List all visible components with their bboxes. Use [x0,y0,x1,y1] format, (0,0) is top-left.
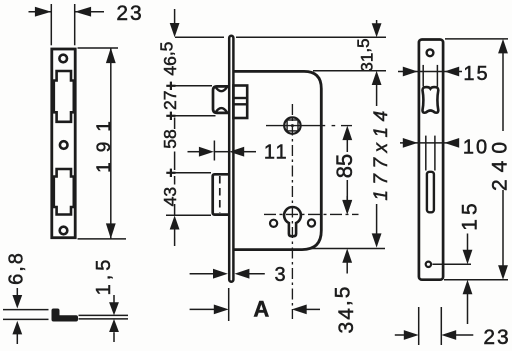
dimension 23 extension lines [50,4,52,45]
svg-text:27: 27 [160,91,180,110]
dimension A [190,308,215,310]
chain dimension line [174,9,176,24]
deadbolt dashed line [219,176,221,213]
svg-text:43: 43 [160,187,180,206]
svg-text:3: 3 [274,264,285,286]
chain bottom arrow [170,216,180,230]
dimension 191 top extension [78,47,119,49]
deadbolt slot [427,172,434,213]
svg-text:11: 11 [264,142,289,164]
svg-text:10: 10 [463,136,489,158]
vertical center axis dash-dot [291,104,293,319]
svg-text:15: 15 [459,199,482,230]
arrow left tip at right ext [75,7,91,17]
screw hole leader line [433,263,472,265]
svg-text:34,5: 34,5 [331,285,358,334]
deadbolt cutout [54,169,74,215]
latch bolt head [213,86,228,113]
dimension 177x14 [372,71,382,85]
screw hole bottom [60,227,68,235]
svg-text:58: 58 [160,129,180,148]
svg-text:15: 15 [463,63,489,85]
svg-text:240: 240 [489,135,512,191]
right bottom screw hole [426,262,431,267]
svg-text:46,5: 46,5 [157,42,181,76]
svg-text:177x14: 177x14 [371,105,392,200]
svg-text:6,8: 6,8 [6,251,28,285]
dimension 240 bottom extension [444,279,508,281]
dimension 11 line [188,151,201,153]
screw hole left of cylinder [270,220,277,227]
svg-text:31,5: 31,5 [354,38,376,71]
right faceplate outline [419,40,443,280]
svg-text:A: A [253,297,269,322]
dimension 11 vertical extension [213,141,215,161]
slot guide lines [425,136,427,171]
dimension 6,8 arrows [16,288,18,296]
dimension 23 bottom extensions [418,307,420,345]
dimension 34,5 [346,196,348,200]
chain line segments [174,118,176,130]
spindle dot [291,124,294,127]
spindle square [287,120,298,131]
plus tick [166,85,175,87]
svg-text:23: 23 [116,2,143,25]
svg-text:23: 23 [483,326,510,349]
deadbolt top extension [167,172,211,174]
section lines right pair [79,314,129,316]
dimension 23 bottom line [395,334,405,336]
dimension 23 dimension line right [75,11,104,13]
latch body line 1 [233,97,247,99]
section lines left pair [3,309,49,311]
euro cylinder keyhole [284,207,301,236]
spindle follower [284,117,300,133]
dimension 31,5 [376,20,378,25]
dimension 191 bottom extension [78,238,127,240]
deadbolt [213,174,230,214]
plus tick [166,115,175,117]
latch top extension [168,85,212,87]
screw hole top [59,55,67,63]
plus tick [166,172,175,174]
dimension 240 line [498,39,508,54]
svg-text:1,5: 1,5 [93,256,115,296]
latch body behind plate [233,86,247,119]
latch body line 2 [233,103,247,105]
faceplate plate outline [52,49,75,238]
dimension 3 [190,273,214,275]
case top extension [313,70,386,72]
faceplate section L profile [52,309,79,322]
latch bolt front (spool) [423,87,439,113]
screw hole middle [60,141,68,149]
svg-text:85: 85 [332,154,357,178]
latch window lines [422,65,424,87]
arrow right tip at left ext [35,7,51,17]
screw hole right of cylinder [308,219,315,226]
dimension 85 [342,126,352,141]
lock case outline [234,71,322,249]
cylinder center h line [264,213,359,215]
middle faceplate strip [229,36,233,282]
top extension line [175,36,224,38]
dimension 15 top [398,71,462,73]
dimension 15 bottom [467,234,469,251]
latch head nose arc top [215,87,227,91]
latch bottom extension [168,115,216,117]
right top screw hole [427,49,434,56]
deadbolt bottom extension [166,214,211,216]
case bottom extension [312,248,385,250]
svg-text:191: 191 [94,111,115,173]
dimension 10 [400,142,457,144]
dimension 240 top extension [445,38,508,40]
dimension 23 dimension line left [29,11,52,13]
latch head nose arc bottom [215,108,227,112]
latch cutout [54,71,74,122]
dimension 191 line [110,48,112,239]
dimension 1,5 arrows [113,295,115,303]
spindle center h line [266,125,325,127]
